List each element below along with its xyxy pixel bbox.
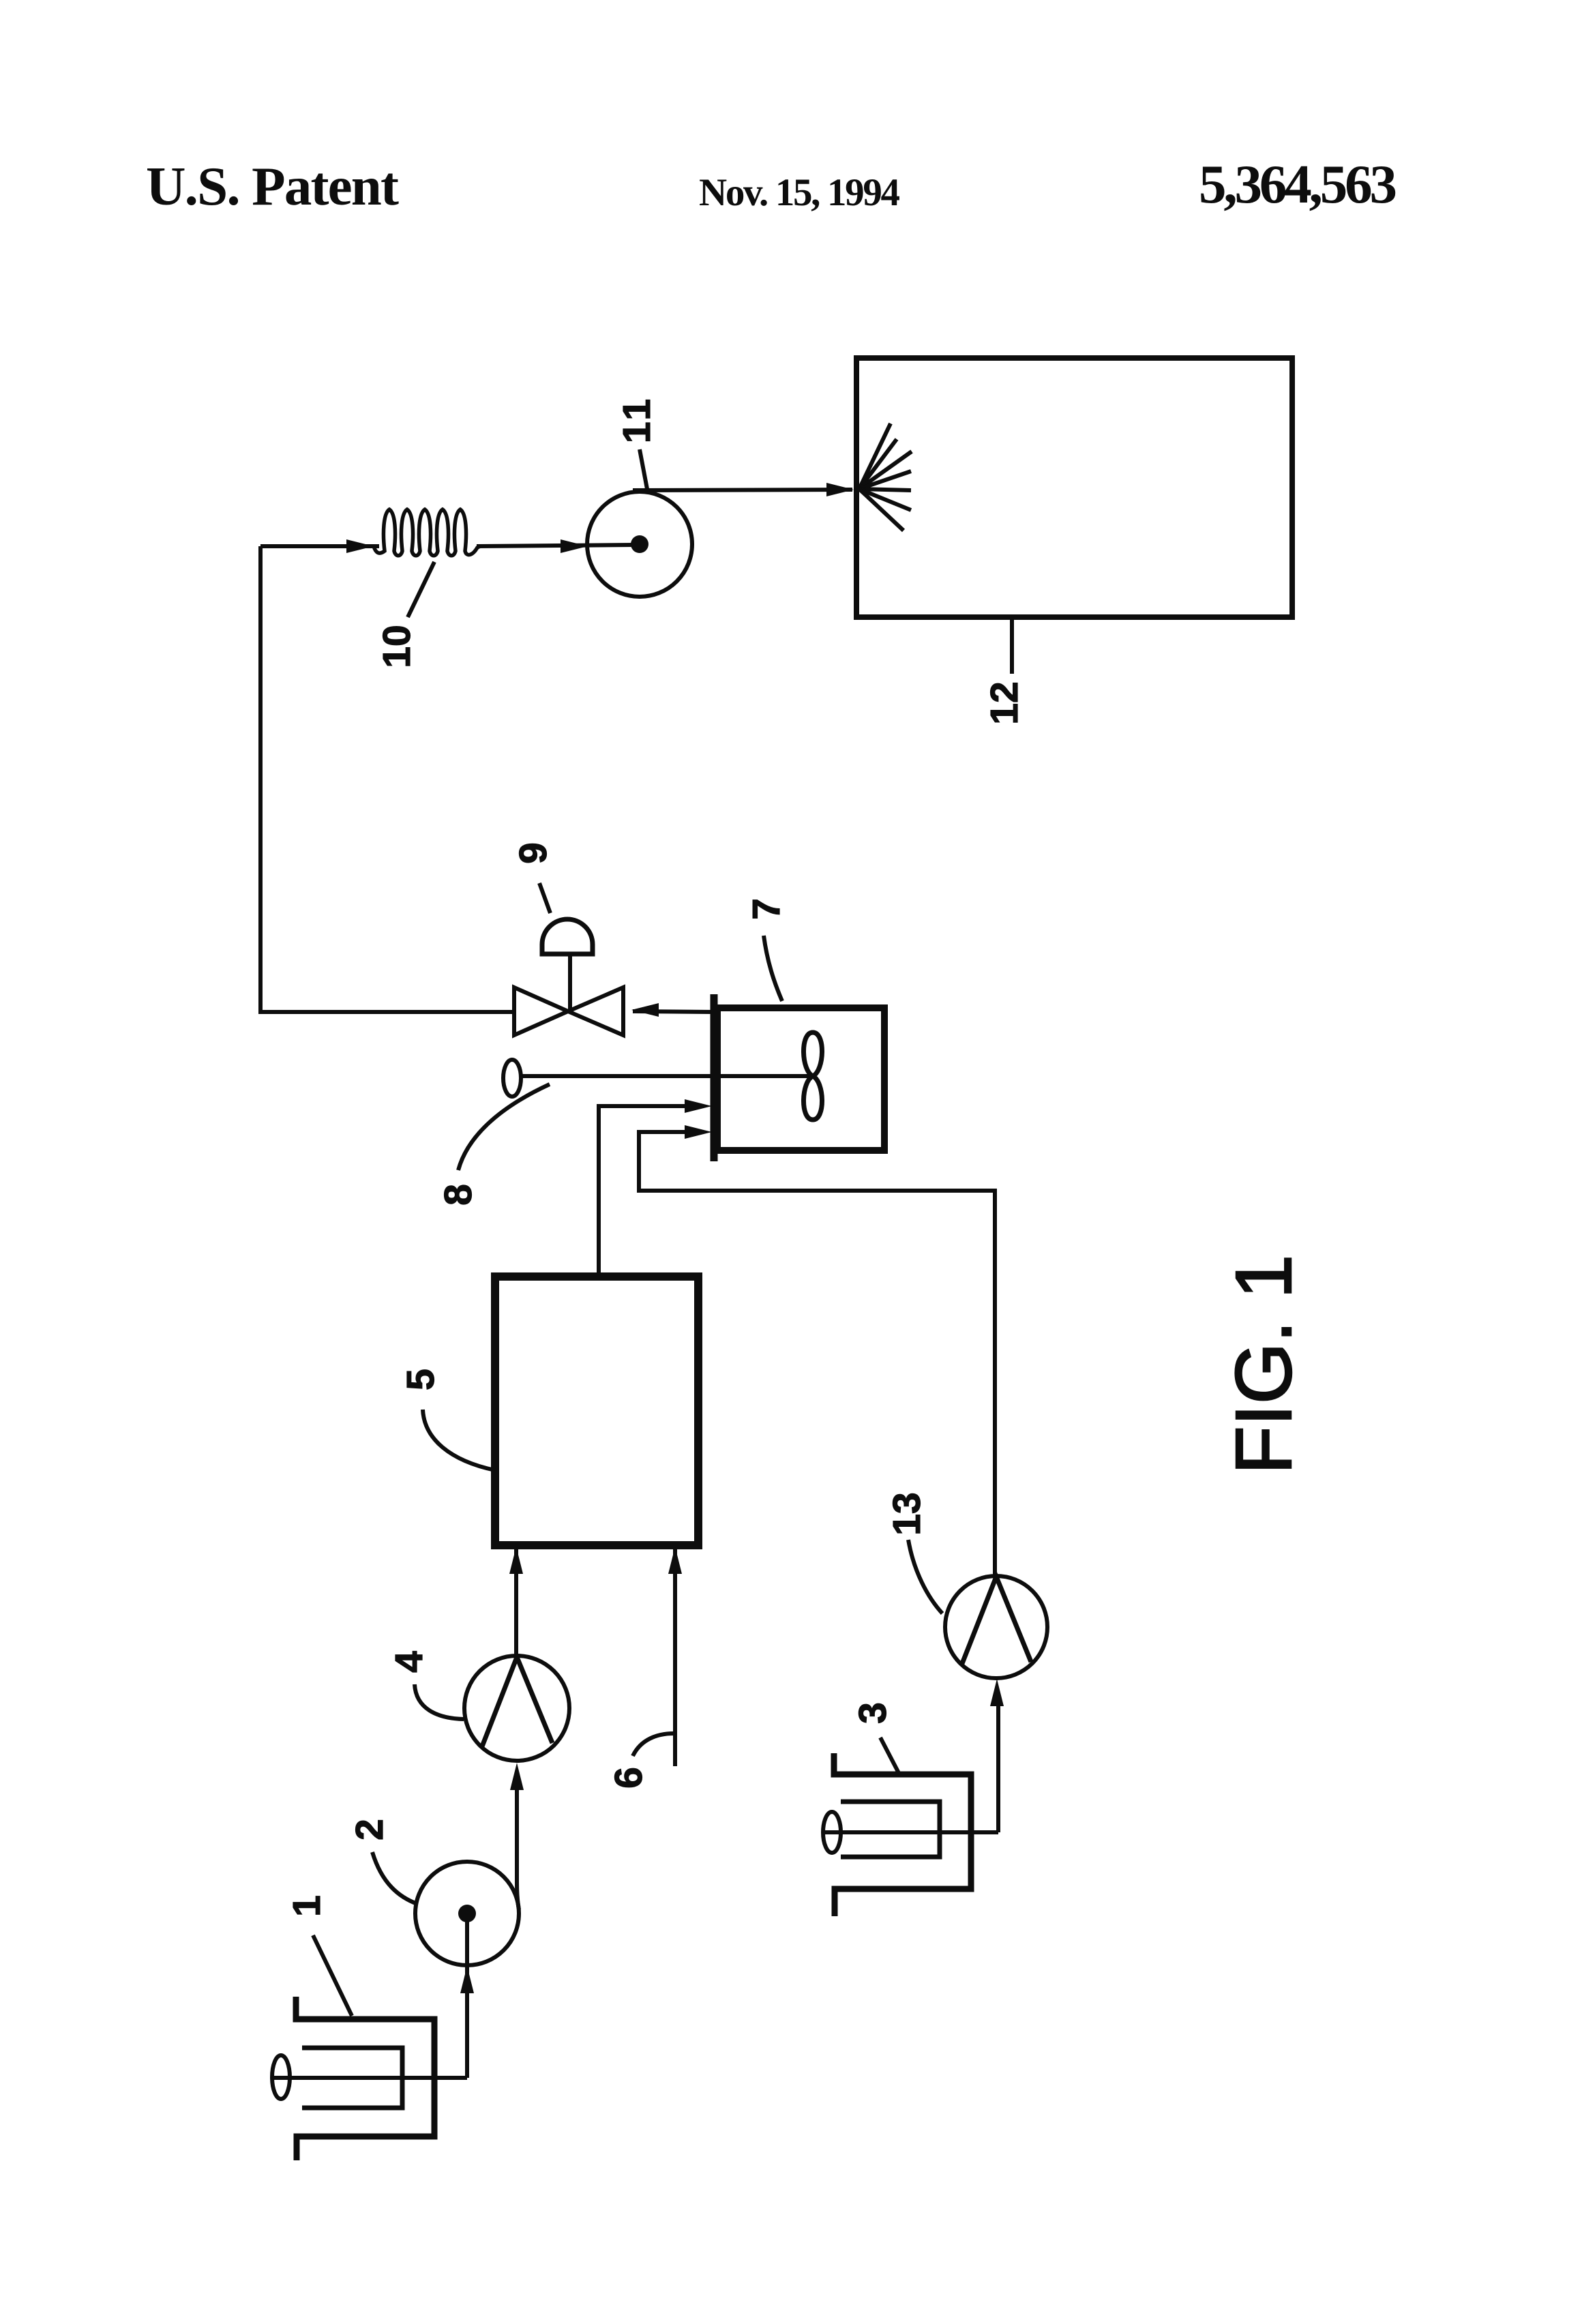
svg-text:Nov. 15, 1994: Nov. 15, 1994 (699, 171, 900, 214)
wire: vessel 3 to pump 13 (996, 1705, 1000, 1832)
svg-text:1: 1 (285, 1895, 329, 1917)
arrow into pump 4 inlet (510, 1763, 524, 1790)
leader line for label 3 (880, 1738, 899, 1773)
tank 7 left flange line (711, 994, 718, 1161)
spray fan line 2 (859, 439, 897, 489)
label 13 (885, 1492, 929, 1535)
leader line for label 10 (408, 562, 434, 617)
leader line for label 5 (423, 1410, 495, 1470)
arrow on wire into damper 11 (561, 539, 588, 553)
svg-text:3: 3 (851, 1702, 895, 1724)
spray fan line 7 (859, 489, 904, 531)
label 9 (511, 842, 555, 864)
control valve 8/9 left triangle (514, 987, 568, 1035)
vessel 1 dip tube (302, 2048, 402, 2108)
spray fan line 3 (859, 451, 912, 489)
spray fan line 5 (859, 489, 911, 490)
leader line for label 9 (539, 883, 550, 913)
damper 2 (circle) (415, 1862, 519, 1965)
center dot of damper 2 (458, 1905, 476, 1922)
label 3 (851, 1702, 895, 1724)
leader line for label 6 (633, 1733, 674, 1756)
wire: dot of damper 2 down to vessel 1 line (465, 1913, 469, 2078)
leader line for label 13 (908, 1540, 942, 1613)
spray fan line 4 (859, 471, 911, 489)
pump 4 V-vanes (482, 1657, 552, 1746)
wire: damper 11 top tangent to spray nozzle of chamber 12 (633, 490, 852, 490)
wire: damper 2 to pump 4 (tangent line) (517, 1789, 519, 1909)
vessel 3 outer wall (834, 1753, 971, 1916)
svg-text:4: 4 (387, 1651, 431, 1673)
arrow into pump 13 inlet (990, 1679, 1004, 1706)
leader line for label 8 (458, 1084, 550, 1170)
extruder/reactor 5 (rectangle) (495, 1277, 698, 1545)
vessel 1 suction line (272, 2076, 467, 2080)
vessel 3 dip tube (841, 1802, 940, 1857)
svg-text:7: 7 (745, 898, 788, 920)
valve stem (568, 954, 572, 1011)
svg-text:9: 9 (511, 842, 555, 864)
wire: extruder 5 to tank 7 (riser + horizontal) (599, 1106, 685, 1277)
wire: pump 4 outlet up to rect 5 (514, 1547, 518, 1657)
wire: pump 13 line to tank 7 (lower inlet path) (639, 1132, 995, 1578)
arrow on top pipe before coil 10 (346, 539, 374, 553)
svg-text:5: 5 (399, 1369, 443, 1390)
center dot of damper 11 (631, 535, 648, 553)
label 6 (607, 1767, 651, 1789)
leader line for label 4 (415, 1684, 464, 1719)
agitator motor ellipse (503, 1060, 521, 1097)
arrow into tank 7 (upper inlet) (685, 1099, 712, 1113)
label 10 (375, 625, 419, 668)
figure caption FIG. 1 (1219, 1255, 1308, 1474)
svg-text:10: 10 (375, 625, 419, 668)
label 8 (436, 1184, 480, 1206)
svg-text:6: 6 (607, 1767, 651, 1789)
arrow into valve from tank 7 (631, 1003, 659, 1017)
label 2 (348, 1819, 391, 1841)
pump 13 V-vanes (961, 1577, 1031, 1665)
arrow into rect 5 bottom (509, 1547, 523, 1574)
label 7 (745, 898, 788, 920)
label 11 (615, 396, 659, 443)
arrow of line 6 into rect 5 (668, 1547, 682, 1574)
wire: coil to damper 11 (477, 545, 636, 546)
spray fan line 1 (859, 423, 891, 489)
leader line for label 1 (313, 1935, 352, 2016)
pump 13 (circle with V) (945, 1576, 1047, 1678)
pulsation damper 11 (circle) (587, 492, 692, 597)
label 5 (399, 1369, 443, 1390)
coil 10 (pulsation coil, 5 loops) (374, 509, 480, 556)
arrow at spray nozzle inlet (826, 483, 854, 496)
svg-text:8: 8 (436, 1184, 480, 1206)
leader line for label 12 (1010, 619, 1014, 674)
vessel 1 outer wall (296, 1997, 434, 2160)
line 6 (second feed into rect 5) (673, 1548, 677, 1766)
vessel 3 pipe-end ellipse (823, 1812, 841, 1853)
control valve right triangle (568, 987, 623, 1035)
svg-text:2: 2 (348, 1819, 391, 1841)
agitator shaft 8 (520, 1074, 813, 1078)
svg-text:13: 13 (885, 1492, 929, 1535)
spray fan line 6 (859, 489, 911, 510)
svg-text:FIG. 1: FIG. 1 (1219, 1255, 1308, 1474)
spray chamber 12 (rectangle) (856, 358, 1292, 617)
mixing tank 7 (rectangle) (717, 1008, 884, 1150)
svg-text:11: 11 (615, 396, 659, 443)
leader line for label 2 (372, 1852, 417, 1904)
label 4 (387, 1651, 431, 1673)
wire: top pipe from riser corner to coil (260, 544, 379, 548)
label 12 (983, 681, 1026, 724)
pump 4 (circle with V) (464, 1656, 569, 1761)
label 1 (285, 1895, 329, 1917)
wire: left riser from top pipe down to valve pipe (260, 546, 514, 1012)
svg-text:5,364,563: 5,364,563 (1199, 153, 1397, 215)
valve actuator dome 9 (542, 919, 593, 954)
vessel 1 pipe-end ellipse (272, 2055, 290, 2099)
leader line for label 11 (640, 449, 647, 489)
leader line for label 7 (764, 936, 782, 1001)
svg-text:12: 12 (983, 681, 1026, 724)
arrow into tank 7 (lower inlet) (685, 1125, 712, 1139)
arrow into damper 2 from vessel 1 (460, 1966, 474, 1993)
vessel 3 suction line (823, 1830, 998, 1834)
svg-text:U.S. Patent: U.S. Patent (146, 155, 399, 217)
wire: tank 7 to valve (633, 1011, 713, 1012)
agitator impeller (figure-8) in tank 7 (803, 1032, 822, 1120)
